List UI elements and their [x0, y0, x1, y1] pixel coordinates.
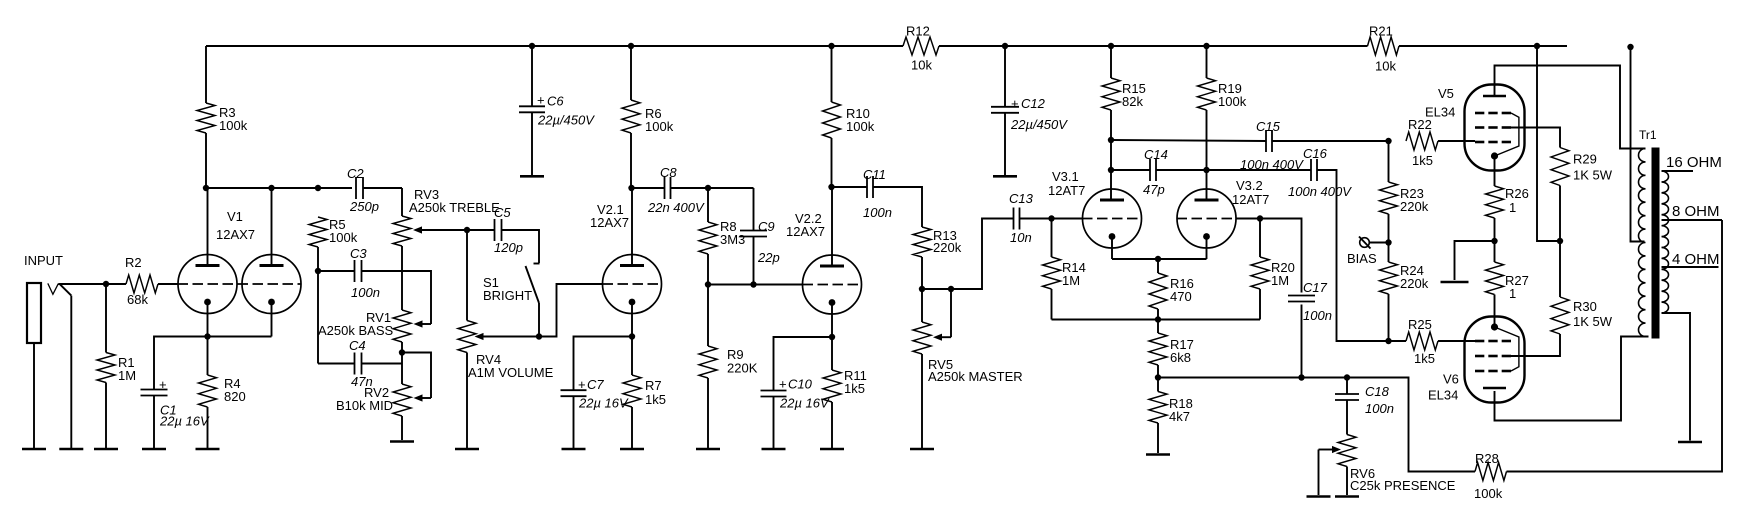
svg-text:R26: R26	[1505, 186, 1529, 201]
svg-text:V3.2: V3.2	[1236, 178, 1263, 193]
label C4	[349, 338, 366, 353]
label C18	[1365, 384, 1390, 399]
wire: C14 right	[1156, 169, 1207, 171]
svg-text:C12: C12	[1021, 96, 1046, 111]
RV4 wiper arrow	[475, 333, 540, 340]
label C11	[863, 167, 886, 182]
junction screen feed	[1557, 238, 1563, 244]
junction on rail at C12	[1002, 43, 1008, 49]
label C12 value	[1010, 117, 1068, 132]
svg-text:100n: 100n	[863, 205, 892, 220]
potentiometer RV3 (treble)	[393, 216, 411, 246]
RV5 wiper loop	[950, 289, 952, 337]
label R4 value	[224, 389, 246, 404]
ground (R18)	[1146, 453, 1170, 456]
V1 grid dashed line	[178, 283, 302, 285]
label R14 value	[1062, 273, 1080, 288]
wire: R23 bottom	[1388, 214, 1390, 243]
junction C9/V2.2 grid	[750, 281, 756, 287]
label C11 value	[863, 205, 892, 220]
capacitor C3	[355, 260, 362, 282]
label V2.2 type	[786, 224, 825, 239]
svg-text:C2: C2	[347, 166, 364, 181]
svg-text:1K 5W: 1K 5W	[1573, 314, 1613, 329]
label S1	[483, 275, 499, 290]
wire: cathode bus	[1112, 258, 1207, 260]
svg-text:1M: 1M	[118, 368, 136, 383]
wire: C2 to treble pot	[363, 187, 402, 189]
svg-text:C9: C9	[758, 219, 775, 234]
resistor R24	[1380, 262, 1398, 294]
wire: R7 to ground	[631, 407, 633, 449]
wire: cathode to C7	[574, 337, 633, 391]
wire: R24 bottom	[1388, 294, 1390, 341]
RV6 wiper arrow	[1319, 446, 1342, 453]
wire: NFB to 8 ohm tap	[1507, 220, 1723, 472]
wire: C9 bottom	[753, 237, 755, 285]
label R26 value	[1509, 200, 1516, 215]
label R10	[846, 106, 870, 121]
svg-text:C10: C10	[788, 377, 813, 392]
junction R8/V2.2 grid	[705, 281, 711, 287]
label C8	[660, 165, 677, 180]
wire: jack sleeve to ground	[33, 343, 35, 449]
svg-text:1k5: 1k5	[645, 392, 666, 407]
junction R5/C3	[315, 268, 321, 274]
label C9	[758, 219, 775, 234]
wire: slope node down to C4	[317, 271, 319, 364]
wire: volume pot top	[466, 230, 468, 321]
transformer Tr1 primary winding	[1639, 149, 1646, 337]
label R7	[645, 378, 662, 393]
svg-text:INPUT: INPUT	[24, 253, 63, 268]
label R24 value	[1400, 276, 1429, 291]
junction RV5 wiper	[948, 286, 954, 292]
label 16 OHM terminal	[1666, 154, 1722, 171]
ground (C7)	[562, 448, 586, 451]
wire: R25 to V6 grid	[1438, 340, 1475, 342]
label RV4	[476, 352, 501, 367]
wire: R2 to V1 grid	[158, 283, 178, 285]
svg-text:820: 820	[224, 389, 246, 404]
label R15 value	[1122, 94, 1143, 109]
V3.1 grid dashed line	[1082, 218, 1142, 220]
capacitor C13	[1014, 208, 1020, 230]
transformer Tr1 core	[1652, 148, 1660, 339]
svg-text:10n: 10n	[1010, 230, 1032, 245]
svg-text:68k: 68k	[127, 292, 148, 307]
wire: C18 top	[1346, 378, 1348, 395]
label RV3	[414, 187, 439, 202]
tube V2.2 (12AX7)	[803, 255, 862, 314]
wire: R1 top	[105, 284, 107, 353]
label R9 value	[727, 361, 758, 376]
svg-text:C14: C14	[1144, 147, 1168, 162]
label C1 polarity	[159, 377, 167, 392]
resistor R6	[622, 100, 640, 133]
label C10 value	[779, 396, 830, 411]
junction C14 tap	[1108, 167, 1114, 173]
capacitor C9	[740, 231, 767, 237]
label RV6	[1350, 466, 1375, 481]
wire: NFB bus	[1158, 378, 1475, 472]
ground (RV4)	[455, 448, 479, 451]
label R16	[1170, 276, 1194, 291]
svg-text:C8: C8	[660, 165, 677, 180]
label C5	[494, 205, 511, 220]
junction C15/R22/R23	[1385, 138, 1391, 144]
junction cathode sense	[1491, 238, 1497, 244]
wire: C4 left	[318, 363, 355, 365]
label C3 value	[351, 285, 380, 300]
ground (R9)	[696, 448, 720, 451]
wire: C11 to R13	[873, 187, 922, 227]
svg-text:A250k BASS: A250k BASS	[318, 323, 393, 338]
wire: V1 anode bus	[206, 187, 352, 189]
svg-text:100k: 100k	[1218, 94, 1247, 109]
wire: V3.2 grid to C17	[1237, 219, 1302, 293]
svg-text:100n 400V: 100n 400V	[1288, 184, 1352, 199]
junction V2.1 anode/C8	[628, 185, 634, 191]
resistor R10	[823, 102, 841, 138]
resistor R27	[1486, 262, 1504, 295]
label R1 value	[118, 368, 136, 383]
label R29	[1573, 152, 1597, 167]
junction R8 top	[705, 185, 711, 191]
svg-text:C18: C18	[1365, 384, 1390, 399]
wire: R6 to V2.1 anode	[630, 133, 632, 188]
label C12	[1021, 96, 1046, 111]
resistor R18	[1149, 392, 1167, 424]
wire: R26 bottom	[1494, 218, 1496, 241]
resistor R9	[699, 346, 717, 378]
wire: C7 to ground	[573, 396, 575, 449]
wire: grid return bus	[1052, 319, 1261, 321]
svg-text:Tr1: Tr1	[1639, 128, 1657, 142]
svg-text:100n: 100n	[1303, 308, 1332, 323]
wire: rail down to R10	[831, 46, 833, 102]
svg-text:1k5: 1k5	[1412, 153, 1433, 168]
node: B+ to output transformer centre tap	[1627, 44, 1633, 50]
label R27	[1505, 273, 1529, 288]
label C15 value	[1240, 157, 1304, 172]
V2.2 grid dashed line	[803, 284, 862, 286]
label R11 value	[844, 381, 865, 396]
svg-text:R29: R29	[1573, 152, 1597, 167]
ground (output cathodes)	[1441, 281, 1469, 284]
capacitor C12 (electrolytic)	[991, 107, 1019, 113]
ground (jack sleeve)	[22, 448, 46, 451]
potentiometer RV2 (mid)	[393, 384, 411, 416]
resistor R8	[699, 222, 717, 254]
label V2.1 type	[590, 215, 629, 230]
label V2.2	[795, 211, 822, 226]
wire: C16 right to V6 grid	[1317, 170, 1406, 341]
wire: cathode to C10	[774, 337, 833, 391]
label RV1 value	[318, 323, 393, 338]
svg-text:R7: R7	[645, 378, 662, 393]
wire: V2.1 cathode down	[631, 302, 633, 375]
svg-text:120p: 120p	[494, 240, 523, 255]
label R9	[727, 347, 744, 362]
svg-text:B10k MID: B10k MID	[336, 398, 393, 413]
capacitor C5	[495, 219, 502, 241]
capacitor C14	[1150, 159, 1156, 181]
capacitor C17	[1288, 296, 1315, 302]
junction V2.2 cathode/C10	[829, 334, 835, 340]
label V1	[227, 209, 243, 224]
label C12 polarity	[1011, 96, 1019, 111]
label C8 value	[647, 200, 705, 215]
label V3.1 type	[1048, 183, 1085, 198]
svg-text:V5: V5	[1438, 86, 1454, 101]
tube V5 (EL34)	[1465, 85, 1525, 171]
label R16 value	[1170, 289, 1192, 304]
label RV6 value	[1350, 478, 1456, 493]
label R15	[1122, 81, 1146, 96]
ground (C12)	[993, 175, 1017, 178]
svg-text:EL34: EL34	[1425, 105, 1455, 120]
label R28	[1475, 451, 1499, 466]
label R29 value	[1573, 168, 1613, 183]
wire: V2.2 anode up	[831, 187, 833, 266]
wire: RV2 to ground	[401, 416, 403, 440]
wire: V3.2 cathode	[1206, 237, 1208, 260]
capacitor C15	[1266, 130, 1272, 152]
wire: RV5 to ground	[921, 354, 923, 449]
resistor R29	[1551, 148, 1569, 186]
RV1 wiper arrow	[414, 320, 432, 327]
wire: R13 bottom	[921, 257, 923, 289]
junction R13/RV5	[919, 286, 925, 292]
wire: rail to C12	[1004, 46, 1006, 107]
svg-text:10k: 10k	[1375, 59, 1396, 74]
wire: 16 ohm tap	[1662, 170, 1694, 172]
wire: R24 top	[1388, 243, 1390, 263]
wire: R27 to V6 cathode	[1494, 295, 1496, 329]
label V5	[1438, 86, 1454, 101]
wire: V5 anode to Tr1 primary top	[1495, 66, 1646, 149]
resistor R4	[199, 375, 217, 407]
svg-text:8 OHM: 8 OHM	[1672, 203, 1720, 220]
svg-text:R25: R25	[1408, 317, 1432, 332]
wire: R23 top	[1388, 141, 1390, 182]
wire: rail to R15	[1110, 46, 1112, 78]
svg-text:12AT7: 12AT7	[1232, 192, 1269, 207]
resistor R19	[1198, 78, 1216, 110]
label C6	[547, 94, 564, 109]
wire: screen feed from rail	[1537, 46, 1560, 241]
junction input/R1	[103, 281, 109, 287]
wire: C10 to ground	[773, 397, 775, 449]
label C10 polarity	[779, 377, 787, 392]
wire: C12 to ground	[1004, 113, 1006, 175]
label R22 value	[1412, 153, 1433, 168]
wire: rail to C6	[531, 46, 533, 106]
label R11	[844, 368, 867, 383]
wire: V1b anode up	[271, 188, 273, 265]
ground (speaker return)	[1678, 441, 1702, 444]
ground (C10)	[762, 448, 786, 451]
svg-text:12AX7: 12AX7	[216, 227, 255, 242]
resistor R22	[1406, 132, 1438, 150]
label R7 value	[645, 392, 666, 407]
label C17 value	[1303, 308, 1332, 323]
label C16 value	[1288, 184, 1352, 199]
svg-text:+: +	[159, 377, 167, 392]
label RV4 value	[468, 365, 554, 380]
label C2 value	[349, 199, 379, 214]
label RV2 value	[336, 398, 393, 413]
capacitor C11	[867, 176, 873, 198]
label RV5 value	[928, 369, 1023, 384]
junction C15 tap	[1108, 137, 1114, 143]
wire: B+ rail after R21	[1399, 45, 1567, 47]
wire: R22 to V5 grid	[1438, 140, 1475, 142]
svg-text:1k5: 1k5	[844, 381, 865, 396]
svg-text:22µ/450V: 22µ/450V	[537, 113, 595, 128]
svg-text:12AT7: 12AT7	[1048, 183, 1085, 198]
svg-text:250p: 250p	[349, 199, 379, 214]
label V2.1	[597, 202, 624, 217]
capacitor C10 (electrolytic)	[761, 391, 787, 397]
ground (RV5)	[910, 448, 934, 451]
svg-text:V6: V6	[1443, 372, 1459, 387]
label R27 value	[1509, 286, 1516, 301]
wire: B+ rail after R12	[939, 45, 1368, 47]
svg-text:82k: 82k	[1122, 94, 1143, 109]
label RV3 value	[409, 200, 500, 215]
wire: input to grid node	[58, 283, 126, 285]
junction R5 tap	[315, 185, 321, 191]
svg-text:100k: 100k	[645, 119, 674, 134]
label R17	[1170, 337, 1194, 352]
svg-text:+: +	[537, 93, 545, 108]
svg-text:C16: C16	[1303, 146, 1328, 161]
svg-text:BRIGHT: BRIGHT	[483, 288, 532, 303]
label 8 OHM terminal	[1672, 203, 1720, 220]
svg-text:1M: 1M	[1271, 273, 1289, 288]
tube V1b (12AX7)	[242, 255, 301, 314]
wire: C9 top	[753, 188, 755, 231]
wire: jack shunt contact to ground	[70, 296, 72, 449]
junction C14/C16 tap	[1203, 167, 1209, 173]
junction treble wiper / volume	[464, 227, 470, 233]
wire: R10 to V2.2 anode	[831, 138, 833, 187]
label R23	[1400, 186, 1424, 201]
svg-text:22µ/450V: 22µ/450V	[1010, 117, 1068, 132]
input jack J1 body	[27, 283, 41, 343]
tube V6 (EL34)	[1465, 317, 1525, 403]
label C6 value	[537, 113, 595, 128]
svg-text:220K: 220K	[727, 361, 758, 376]
junction C13/R14	[1048, 215, 1054, 221]
junction V1b anode	[268, 185, 274, 191]
wire: C3 left	[318, 270, 355, 272]
label RV2	[364, 385, 389, 400]
wire: C16 left	[1207, 169, 1312, 171]
label R25	[1408, 317, 1432, 332]
label C5 value	[494, 240, 523, 255]
capacitor C16	[1311, 159, 1317, 181]
svg-text:BIAS: BIAS	[1347, 251, 1377, 266]
wire: C1 to ground	[153, 396, 155, 449]
svg-text:C5: C5	[494, 205, 511, 220]
resistor R20	[1251, 257, 1269, 289]
wire: R17 bottom	[1157, 365, 1159, 378]
svg-text:C17: C17	[1303, 280, 1328, 295]
wire: R3 to anode node	[205, 133, 207, 188]
junction bias node	[1385, 239, 1391, 245]
resistor R3	[197, 103, 215, 133]
wire: R15 to V3.1 anode	[1110, 110, 1112, 200]
label R6	[645, 106, 662, 121]
wire: centre tap feed	[1631, 47, 1645, 242]
svg-text:C25k PRESENCE: C25k PRESENCE	[1350, 478, 1456, 493]
potentiometer RV4 (volume)	[458, 321, 476, 353]
svg-text:6k8: 6k8	[1170, 350, 1191, 365]
wire: C4 right	[362, 363, 403, 365]
svg-text:V3.1: V3.1	[1052, 169, 1079, 184]
label R19 value	[1218, 94, 1247, 109]
wire: RV6 wiper to ground	[1318, 450, 1320, 496]
ground (R1)	[94, 448, 118, 451]
resistor R5	[309, 217, 327, 247]
wire: B+ supply rail	[206, 45, 903, 47]
ground (R11)	[820, 448, 844, 451]
ground (RV2)	[390, 440, 414, 443]
label Tr1	[1639, 128, 1657, 142]
tube V3.2 (12AT7)	[1177, 189, 1236, 248]
wire: V1a cathode down	[207, 302, 209, 375]
svg-text:22µ 16V: 22µ 16V	[779, 396, 830, 411]
svg-text:1K 5W: 1K 5W	[1573, 168, 1613, 183]
wire: R9 bottom to ground	[707, 378, 709, 449]
junction on rail at R10	[828, 43, 834, 49]
svg-text:470: 470	[1170, 289, 1192, 304]
label R22	[1408, 117, 1432, 132]
label V3.1	[1052, 169, 1079, 184]
junction on rail at R6	[628, 43, 634, 49]
label R13 value	[933, 240, 962, 255]
label V5 type	[1425, 105, 1455, 120]
label R3 value	[219, 118, 248, 133]
junction V2.2 anode/C11	[828, 184, 834, 190]
label RV5	[928, 357, 953, 372]
wire: R14 bottom	[1051, 289, 1053, 320]
wire: bias to node	[1369, 242, 1388, 244]
RV5 wiper arrow	[933, 334, 951, 341]
wire: R5 to C3 node	[317, 247, 319, 271]
RV3 wiper arrow	[413, 226, 467, 233]
junction on rail at C6	[529, 43, 535, 49]
label R19	[1218, 81, 1242, 96]
svg-text:100k: 100k	[846, 119, 875, 134]
wire: RV1 to mid pot	[401, 342, 403, 384]
wire: R27 top	[1494, 241, 1496, 262]
label C13	[1009, 191, 1034, 206]
wire: volume to V2.1 grid	[539, 284, 603, 337]
label V6 type	[1428, 388, 1458, 403]
label R6 value	[645, 119, 674, 134]
capacitor C4	[355, 353, 362, 375]
label R8	[720, 219, 737, 234]
label BIAS	[1347, 251, 1377, 266]
junction C17/NFB bus	[1298, 374, 1304, 380]
resistor R13	[913, 227, 931, 257]
wire: S1 to volume wiper node	[538, 303, 540, 337]
svg-text:10k: 10k	[911, 58, 932, 73]
